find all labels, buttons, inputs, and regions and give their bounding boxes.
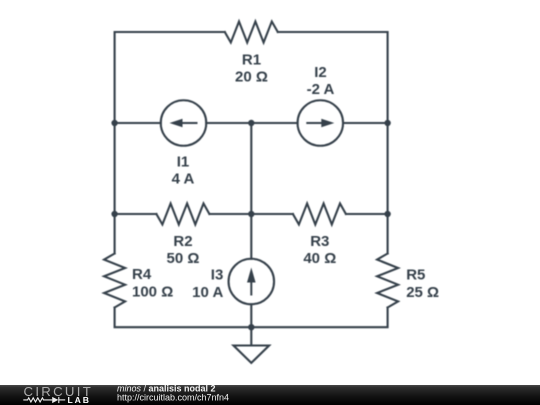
svg-text:LAB: LAB <box>68 395 91 405</box>
svg-text:http://circuitlab.com/ch7nfn4: http://circuitlab.com/ch7nfn4 <box>117 392 229 402</box>
